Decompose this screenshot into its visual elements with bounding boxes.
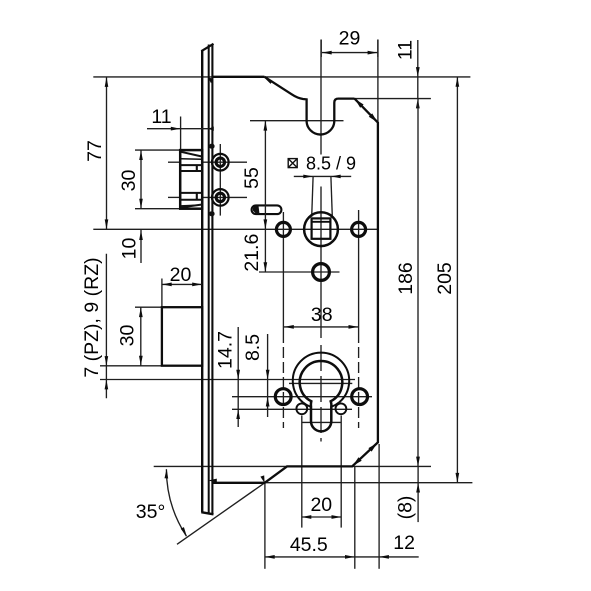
dimension 30 latch <box>118 150 143 209</box>
svg-text:77: 77 <box>84 140 106 162</box>
vertical centreline x=321 upper <box>320 40 322 155</box>
extension line y=383.4 (cylinder centre short) <box>289 382 352 384</box>
dimension 10 <box>118 230 143 263</box>
dimension 29 <box>321 28 378 57</box>
svg-text:55: 55 <box>241 167 263 189</box>
svg-text:21.6: 21.6 <box>241 234 263 272</box>
dimension 205 <box>434 77 459 483</box>
svg-text:45.5: 45.5 <box>290 534 328 556</box>
cylinder outer circle <box>293 353 349 407</box>
dimension 7 (PZ), 9 (RZ) <box>81 254 108 399</box>
deadbolt <box>162 307 202 366</box>
oblong slot <box>252 205 282 214</box>
chamfer arrow top-right upper <box>355 99 364 108</box>
screw hole upper <box>212 154 229 171</box>
dimension 186 <box>395 99 420 467</box>
dimension 77 <box>84 77 108 229</box>
extension line y=98.6 (top step) <box>336 98 431 100</box>
extension lines 45.5 / 12 <box>265 444 379 569</box>
dimension 20 deadbolt <box>162 264 202 286</box>
dimension 35 degrees <box>136 469 187 537</box>
vertical centreline x=321 lower <box>320 345 322 442</box>
square extension lines <box>312 176 333 216</box>
cylinder fixing hole right <box>352 389 368 405</box>
dimension 12 <box>340 532 419 559</box>
extension line y=482.7 (bottom edge) <box>266 482 472 484</box>
dimension (8) <box>395 466 421 522</box>
corner arrow at bevel start <box>260 475 264 483</box>
corner arrow at faceplate bottom <box>208 479 217 483</box>
svg-text:205: 205 <box>434 262 456 295</box>
chamfer arrow bottom-right upper <box>368 443 377 452</box>
extension line x=377.9 (right edge, for 29) <box>377 40 379 123</box>
dimension 21.6 <box>241 234 267 272</box>
hole below follower <box>313 264 330 281</box>
chamfer arrow top-right lower <box>369 113 378 122</box>
extension line y=120.7 (notch arc centre) <box>250 120 344 122</box>
screw holes centrelines <box>168 144 247 216</box>
vertical centreline x=358.6 (right hole) <box>358 210 360 428</box>
extension line x=180.6 (latch face, for 11) <box>180 117 182 150</box>
svg-text:12: 12 <box>393 532 415 554</box>
extension line y=409.3 (cylinder screws) <box>232 408 352 410</box>
cylinder screw hole left <box>296 403 307 414</box>
svg-text:30: 30 <box>117 325 139 347</box>
svg-text:11: 11 <box>151 106 171 128</box>
dimension 45.5 <box>265 534 340 559</box>
horizontal centreline y=229.3 (follower axis) <box>93 228 378 230</box>
cylinder fixing hole left <box>275 389 291 405</box>
hole left of follower <box>276 222 290 236</box>
svg-text:30: 30 <box>118 170 140 192</box>
screw hole lower <box>212 189 229 206</box>
svg-text:(8): (8) <box>395 496 417 520</box>
corner arrow at faceplate top <box>208 77 213 83</box>
faceplate tab upper <box>209 144 215 149</box>
chamfer arrow bottom-right lower <box>353 457 362 466</box>
svg-text:10: 10 <box>118 238 140 260</box>
extension lines deadbolt 30 <box>100 307 162 366</box>
dimension 11 latch <box>147 106 214 131</box>
centreline y=272 (lower hole) <box>259 271 340 273</box>
svg-text:186: 186 <box>395 262 417 295</box>
svg-text:8.5 / 9: 8.5 / 9 <box>306 154 356 174</box>
extension line y=379.5 (7/9 ref, cylinder axis) <box>100 379 355 381</box>
faceplate tab lower <box>209 211 215 216</box>
extension line y=466.4 (bottom flat) <box>154 465 431 467</box>
hole right of follower <box>352 222 366 236</box>
follower circle <box>304 212 338 246</box>
svg-text:29: 29 <box>339 28 361 50</box>
vertical centreline x=283.4 (left hole) <box>282 212 284 428</box>
cylinder screw hole right <box>336 403 347 414</box>
svg-text:7 (PZ), 9 (RZ): 7 (PZ), 9 (RZ) <box>81 257 103 377</box>
extension line y=422.4 (cylinder end) <box>302 421 341 423</box>
dimension 30 deadbolt <box>117 307 143 366</box>
dimension 8.5 cylinder <box>242 334 270 417</box>
cylinder profile (euro) <box>300 361 343 431</box>
dimension 20 bottom <box>302 494 342 519</box>
extension lines bottom 20 <box>302 416 341 528</box>
latch bolt <box>180 150 202 209</box>
dimension 11 top <box>395 40 420 109</box>
lock case outline <box>212 77 378 483</box>
dimension 8.5 / 9 square <box>288 154 356 179</box>
svg-text:8.5: 8.5 <box>242 334 264 361</box>
corner arrow top edge transition <box>264 77 273 84</box>
svg-text:38: 38 <box>311 304 333 326</box>
svg-text:35°: 35° <box>136 501 166 523</box>
dimension 38 <box>284 304 358 329</box>
extension lines latch 30 <box>135 150 180 209</box>
svg-text:20: 20 <box>170 264 192 286</box>
follower square 9 <box>312 218 331 238</box>
svg-text:20: 20 <box>310 494 332 516</box>
svg-text:14.7: 14.7 <box>215 331 237 369</box>
svg-text:11: 11 <box>395 40 417 60</box>
35 degree reference line <box>177 483 265 544</box>
extension lines deadbolt 20 <box>162 279 202 308</box>
extension line top edge y=77 <box>93 76 470 78</box>
vertical centreline x=321 middle <box>320 187 322 339</box>
dimension 55 <box>241 121 267 272</box>
dimension 14.7 <box>215 327 241 427</box>
faceplate <box>201 44 213 515</box>
extension line y=396.7 (cylinder fixing holes) <box>232 396 372 398</box>
